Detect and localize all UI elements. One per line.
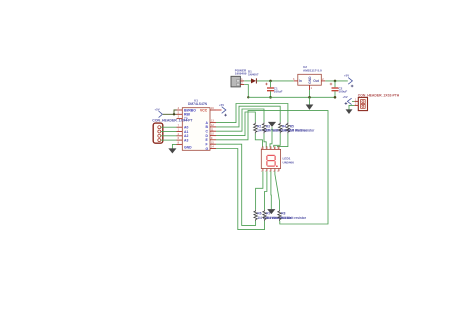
svg-text:Out: Out [313, 79, 320, 83]
svg-text:1/4 Watt resistor: 1/4 Watt resistor [290, 129, 315, 133]
connector J2 body [358, 97, 367, 110]
resistor R6 [254, 210, 283, 221]
wire U1 output A to R5 (staircase 1) [216, 104, 288, 123]
svg-text:UN5466: UN5466 [283, 160, 295, 164]
svg-text:GND: GND [184, 145, 192, 149]
wire U1 output D to R2 (staircase 4) [216, 112, 255, 136]
capacitor C1 [265, 83, 274, 91]
wire J2 pin2 to ground [349, 105, 354, 109]
wire C2 top stub [334, 81, 336, 87]
junction at C2 top [334, 80, 337, 83]
svg-text:1/4 Watt resistor: 1/4 Watt resistor [281, 216, 306, 220]
svg-text:1N4007: 1N4007 [248, 73, 259, 77]
U1 pin 11 output C [206, 128, 217, 133]
U1 pin 12 output B [206, 124, 217, 129]
svg-text:RBI: RBI [184, 113, 190, 117]
display LED1 bottom pin stubs [261, 169, 279, 173]
IC U1 body [182, 108, 210, 151]
junction U2 GND at rail [308, 96, 311, 99]
pin 2 of POWER jack [240, 82, 244, 85]
U1 pin 8 GND [177, 142, 193, 150]
U1 pin 9 output E [206, 137, 217, 142]
supply +5V flag at U1 VCC [219, 103, 227, 117]
svg-text:1: 1 [311, 87, 313, 90]
display LED1 label [283, 157, 295, 165]
wire C2 bottom stub [334, 91, 336, 97]
wire U2 GND to rail [309, 90, 311, 97]
svg-text:1909409: 1909409 [235, 72, 247, 76]
ground symbol below display common [268, 209, 276, 214]
U1 pin 16 VCC [200, 107, 216, 112]
svg-text:GND: GND [308, 76, 312, 84]
connector J2 pin 1 [354, 99, 358, 102]
regulator U2 label AMS1117-5.0 [303, 65, 322, 72]
resistor R7 [263, 210, 292, 221]
display LED1 segment figure 8 [267, 155, 278, 167]
resistor R3 [262, 122, 291, 133]
U1 pin 10 output D [206, 133, 217, 138]
wire display pin bottom3 to ground [270, 171, 272, 209]
U1 pin 14 output G [206, 146, 217, 151]
svg-text:+5V: +5V [155, 107, 160, 111]
wire U2 Out to +5V [325, 80, 348, 82]
wire U1 VCC to +5V flag [216, 109, 222, 111]
U1 pin 15 output F [206, 141, 217, 146]
svg-text:DM74LS47N: DM74LS47N [188, 102, 208, 106]
U1 pin 6 A3 [177, 137, 189, 142]
ground symbol at U1 [169, 149, 177, 154]
junction at +5V input split [173, 113, 175, 115]
wire J3 pin3 to U1 A2 [161, 135, 177, 137]
wire U1 output C to R3 (staircase 3) [216, 109, 264, 131]
ground symbol above display common [268, 122, 276, 147]
junction at C2 bottom [334, 96, 337, 99]
U2 pin 1 GND [308, 76, 313, 90]
wire U1 output F to R6 bottom [216, 144, 256, 225]
svg-text:VCC: VCC [200, 108, 208, 112]
supply +5V flag at U1 inputs [155, 107, 163, 117]
wire C1 bottom stub [270, 91, 272, 97]
wire J3 pin1 to U1 A0 [161, 126, 177, 128]
svg-text:+5V: +5V [344, 74, 349, 78]
wire U1 GND pin to ground [172, 144, 176, 148]
wire POWER pin2 down to ground rail [244, 85, 248, 98]
wire U1 output G to R7 bottom [216, 149, 265, 230]
wire display pin bottom1 to R6 [256, 171, 263, 209]
U1 pin 4 BI/RBO [177, 107, 197, 112]
pin 1 of POWER jack [240, 78, 244, 81]
resistor R2 [254, 122, 283, 133]
display LED1 body [261, 149, 280, 168]
resistor R4 [279, 122, 308, 133]
U1 pin 2 A2 [177, 133, 189, 138]
wire +5V to RBI and BI/RBO [163, 110, 177, 114]
diode D1 label 1N4007 [248, 70, 259, 77]
wire R5 to display pin top5 [277, 134, 288, 148]
regulator U2 body [298, 74, 322, 85]
wire U1 output E right loop to R8 [216, 111, 328, 224]
svg-text:In: In [299, 79, 302, 83]
connector J2 pin 2 [354, 103, 358, 106]
junction at C1 bottom [269, 96, 272, 99]
svg-text:100uF: 100uF [339, 89, 348, 93]
resistor R8 [278, 210, 307, 221]
capacitor C1 label 100uF [274, 87, 283, 94]
capacitor C2 label 100uF [339, 87, 348, 94]
wire display pin bottom4 to R8 [275, 171, 280, 209]
U2 pin 2 Out [313, 78, 325, 83]
ground symbol below rail [306, 97, 313, 109]
U1 pin 1 A1 [177, 129, 189, 134]
capacitor C2 [330, 83, 339, 91]
ground symbol at J2 [346, 110, 352, 114]
display LED1 top pin stubs [261, 146, 280, 150]
wire J3 pin4 to U1 A3 [161, 139, 177, 141]
resistor R5 [286, 122, 315, 133]
svg-text:100uF: 100uF [274, 89, 283, 93]
U1 pin 7 A0 [177, 124, 189, 129]
wire display pin bottom2 to R7 [265, 171, 267, 209]
IC U1 label DM74LS47N [188, 99, 208, 106]
wire R3 to display pin top2 [264, 134, 266, 148]
U1 pin 13 output A [206, 120, 217, 125]
U2 pin 3 In [293, 78, 302, 83]
svg-text:CON_HEADER_1X04-PT: CON_HEADER_1X04-PT [152, 119, 193, 123]
connector J1 label POWER 1909409 [235, 69, 247, 76]
svg-text:+5V: +5V [219, 103, 224, 107]
wire J3 pin2 to U1 A1 [161, 131, 177, 133]
wire D1 cathode to U2 In [257, 80, 294, 82]
U1 pin 5 RBI [177, 111, 190, 116]
wire C1 top stub [270, 81, 272, 87]
U1 pin 3 LT [177, 116, 189, 122]
svg-text:3: 3 [293, 78, 295, 81]
svg-text:AMS1117-5.0: AMS1117-5.0 [303, 69, 322, 73]
diode D1 [251, 78, 256, 83]
svg-text:A3: A3 [184, 138, 188, 142]
connector J1 POWER jack body [231, 76, 240, 87]
connector J3 body [153, 123, 163, 143]
supply +5V flag at J2 pin1 [343, 95, 355, 105]
wire U1 output B to R4 (staircase 2) [216, 106, 280, 127]
wire POWER pin1 to D1 anode [244, 80, 251, 82]
svg-text:2: 2 [322, 78, 324, 81]
junction at C1 top [269, 80, 272, 83]
svg-text:+5V: +5V [343, 95, 348, 99]
supply +5V flag at regulator output [344, 74, 353, 88]
junction at rail left [247, 96, 249, 98]
wire R2 to display pin top1 [255, 134, 262, 148]
wire ground rail [248, 96, 335, 98]
wire R4 to display pin top4 [274, 134, 281, 148]
svg-text:G: G [206, 147, 209, 151]
